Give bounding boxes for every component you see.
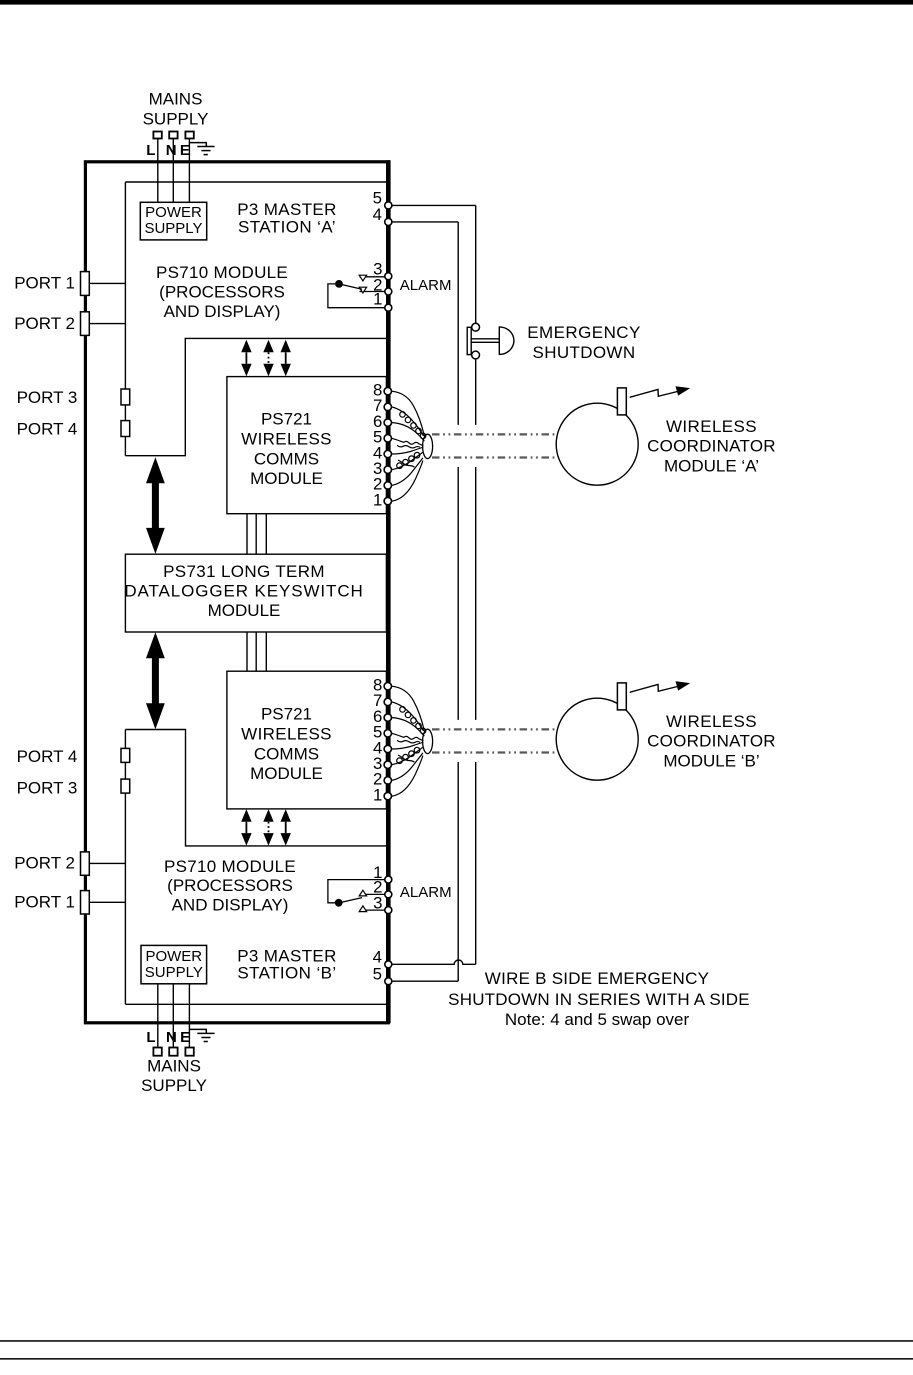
svg-text:MAINS: MAINS xyxy=(147,1057,201,1076)
svg-text:WIRELESS: WIRELESS xyxy=(666,417,757,436)
svg-text:PS721: PS721 xyxy=(261,410,312,429)
svg-text:PORT 4: PORT 4 xyxy=(17,747,78,766)
svg-text:MODULE: MODULE xyxy=(250,764,323,783)
svg-text:MODULE ‘B’: MODULE ‘B’ xyxy=(663,751,759,770)
bus arrow PS710A-PS731 xyxy=(146,457,165,554)
power supply B box xyxy=(141,945,207,983)
svg-text:DATALOGGER KEYSWITCH: DATALOGGER KEYSWITCH xyxy=(124,581,363,600)
port 1 connector B xyxy=(81,891,90,914)
svg-text:COMMS: COMMS xyxy=(254,745,319,764)
emergency shutdown terminal lower xyxy=(472,351,480,359)
svg-text:SUPPLY: SUPPLY xyxy=(141,1076,207,1095)
rf arrow A xyxy=(630,386,691,397)
bus lines PS721A-PS731 xyxy=(247,514,266,554)
labels pins 8-1 (PS721 B) xyxy=(373,676,382,805)
svg-text:E: E xyxy=(180,1029,190,1046)
svg-text:PS710 MODULE: PS710 MODULE xyxy=(164,857,296,876)
mains terminal square bottom 1 xyxy=(153,1048,161,1056)
svg-text:P3 MASTER: P3 MASTER xyxy=(237,947,337,966)
svg-text:PS710 MODULE: PS710 MODULE xyxy=(156,263,288,282)
port 3 connector A xyxy=(121,389,130,405)
module PS721 A box xyxy=(227,377,387,514)
power supply A box xyxy=(140,202,206,240)
rf arrow B xyxy=(630,681,691,692)
svg-text:MODULE ‘A’: MODULE ‘A’ xyxy=(664,456,759,475)
svg-text:(PROCESSORS: (PROCESSORS xyxy=(167,876,293,895)
svg-text:PORT 2: PORT 2 xyxy=(14,854,75,873)
emergency shutdown terminal upper xyxy=(472,323,480,331)
wire alarm A pin2 xyxy=(360,291,385,293)
wire mains E (top) xyxy=(188,139,190,203)
svg-text:WIRELESS: WIRELESS xyxy=(666,712,757,731)
alarm A contact triangle pin3 xyxy=(359,275,366,281)
svg-text:PS721: PS721 xyxy=(261,705,312,724)
svg-text:COORDINATOR: COORDINATOR xyxy=(647,437,776,456)
wire port1 A xyxy=(89,282,125,284)
wire alarm A pin3 xyxy=(360,276,385,278)
svg-text:MODULE: MODULE xyxy=(208,601,281,620)
alarm B common dot xyxy=(335,899,343,907)
wire pin4A to right bus xyxy=(392,221,458,223)
footer rule upper xyxy=(0,1340,913,1342)
svg-text:COMMS: COMMS xyxy=(254,450,319,469)
svg-text:(PROCESSORS: (PROCESSORS xyxy=(159,283,285,302)
pin terminals 8-1 (PS721 A) xyxy=(384,388,391,505)
alarm A common dot xyxy=(335,280,343,288)
cabinet enclosure outline xyxy=(85,162,388,1023)
module PS710 B outline xyxy=(125,730,386,1005)
emergency shutdown contact bar xyxy=(467,327,471,354)
mains terminal square top 3 xyxy=(185,132,193,139)
svg-text:SUPPLY: SUPPLY xyxy=(143,110,209,129)
alarm A wiper xyxy=(341,284,362,289)
earth symbol (top) xyxy=(189,143,214,155)
module PS710 A outline xyxy=(125,182,386,456)
alarm B contact triangle pin3 xyxy=(359,906,366,912)
wire alarm B pin3 xyxy=(360,909,385,911)
module PS721 B box xyxy=(227,671,387,809)
wire port1 B xyxy=(89,901,125,903)
svg-text:AND DISPLAY): AND DISPLAY) xyxy=(172,896,289,915)
port 2 connector B xyxy=(81,852,90,875)
wireless link lines B xyxy=(432,729,556,752)
wireless coordinator B circle xyxy=(556,698,638,780)
pin 4 terminal (B bottom) xyxy=(385,961,392,968)
wireless link lines A xyxy=(432,434,556,457)
pin 2 terminal (alarm A) xyxy=(385,288,392,295)
pin 5 terminal (B bottom) xyxy=(385,978,392,985)
wire port2 A xyxy=(89,323,125,325)
pin 1 terminal (alarm B) xyxy=(385,876,392,883)
svg-text:WIRE B SIDE EMERGENCY: WIRE B SIDE EMERGENCY xyxy=(485,969,709,988)
wire mains E (bottom) xyxy=(188,984,190,1048)
svg-text:PORT 3: PORT 3 xyxy=(17,779,78,798)
svg-text:PORT 4: PORT 4 xyxy=(17,420,78,439)
svg-text:MAINS: MAINS xyxy=(149,89,203,108)
svg-text:E: E xyxy=(180,142,190,159)
pin 1 terminal (alarm A) xyxy=(385,304,392,311)
wire alarm A common xyxy=(328,284,385,308)
svg-text:PORT 1: PORT 1 xyxy=(14,274,75,293)
svg-text:STATION ‘A’: STATION ‘A’ xyxy=(238,217,336,236)
alarm A contact triangle pin2 xyxy=(359,287,366,293)
wire alarm B pin2 xyxy=(360,893,385,895)
wire port2 B xyxy=(89,862,125,864)
data arrows PS721B-PS710B xyxy=(241,809,251,845)
wire pin5B xyxy=(392,980,458,982)
mains terminal square bottom 3 xyxy=(185,1048,193,1056)
svg-text:1: 1 xyxy=(373,785,382,804)
svg-text:SHUTDOWN: SHUTDOWN xyxy=(533,343,636,362)
mains terminal square bottom 2 xyxy=(169,1048,177,1056)
port 1 connector A xyxy=(81,272,90,296)
svg-text:1: 1 xyxy=(373,490,382,509)
labels pins 8-1 (PS721 A) xyxy=(373,381,382,510)
svg-text:SHUTDOWN IN SERIES WITH A SIDE: SHUTDOWN IN SERIES WITH A SIDE xyxy=(448,990,750,1009)
svg-text:Note: 4 and 5 swap over: Note: 4 and 5 swap over xyxy=(505,1010,690,1029)
wire mains N (bottom) xyxy=(172,984,174,1048)
pin 5 terminal (A top) xyxy=(385,202,392,209)
antenna B xyxy=(617,683,626,710)
svg-text:5: 5 xyxy=(373,964,382,983)
pin 3 terminal (alarm A) xyxy=(385,273,392,280)
svg-text:COORDINATOR: COORDINATOR xyxy=(647,732,776,751)
pin terminals 8-1 (PS721 B) xyxy=(384,683,391,800)
twisted-pair cloud PS721 B xyxy=(392,686,433,796)
cabinet right-hand backplane rail xyxy=(386,160,391,1023)
emergency shutdown actuator shaft xyxy=(471,339,499,343)
svg-text:EMERGENCY: EMERGENCY xyxy=(527,323,641,342)
svg-text:WIRELESS: WIRELESS xyxy=(241,430,332,449)
svg-text:4: 4 xyxy=(373,205,382,224)
port 4 connector A xyxy=(121,421,130,437)
svg-text:ALARM: ALARM xyxy=(400,884,452,901)
emergency shutdown mushroom head xyxy=(499,327,514,355)
alarm B contact triangle pin2 xyxy=(359,890,366,896)
mains terminal square top 2 xyxy=(169,132,177,139)
wire mains L (top) xyxy=(157,139,159,203)
port 2 connector A xyxy=(81,312,90,336)
twisted-pair cloud PS721 A xyxy=(392,391,433,501)
svg-text:P3 MASTER: P3 MASTER xyxy=(237,200,337,219)
svg-text:MODULE: MODULE xyxy=(250,469,323,488)
svg-text:ALARM: ALARM xyxy=(400,277,452,294)
wireless coordinator A circle xyxy=(556,403,638,485)
svg-text:PORT 3: PORT 3 xyxy=(17,388,78,407)
svg-text:L: L xyxy=(146,142,155,159)
data arrows PS710A-PS721A xyxy=(241,340,251,376)
svg-text:AND DISPLAY): AND DISPLAY) xyxy=(164,302,281,321)
svg-text:PS731 LONG TERM: PS731 LONG TERM xyxy=(163,562,325,581)
svg-text:1: 1 xyxy=(373,289,382,308)
svg-text:PORT 2: PORT 2 xyxy=(14,314,75,333)
module PS731 box xyxy=(125,554,386,632)
mains terminal square top 1 xyxy=(153,132,161,139)
bus lines PS731-PS721B xyxy=(247,632,266,671)
wire pin4B with hop xyxy=(392,960,476,964)
svg-text:SUPPLY: SUPPLY xyxy=(145,964,203,981)
bus arrow PS731-PS710B xyxy=(146,632,165,729)
port 3 connector B xyxy=(121,779,130,793)
wire net pin4A-pin5B vertical (x=458.2) xyxy=(457,222,459,981)
svg-text:L: L xyxy=(146,1029,155,1046)
svg-text:SUPPLY: SUPPLY xyxy=(144,220,202,237)
port 4 connector B xyxy=(121,748,130,762)
alarm B wiper xyxy=(341,898,362,903)
pin 2 terminal (alarm B) xyxy=(385,891,392,898)
wire net pin5A-pin4B vertical (x=475.7) xyxy=(475,205,477,964)
svg-text:N: N xyxy=(166,1029,177,1046)
earth symbol (bottom) xyxy=(189,1029,214,1041)
wire alarm B common xyxy=(328,880,385,903)
footer rule lower xyxy=(0,1358,913,1360)
svg-text:WIRELESS: WIRELESS xyxy=(241,725,332,744)
page header bar xyxy=(0,0,913,5)
pin 4 terminal (A top) xyxy=(385,218,392,225)
svg-text:POWER: POWER xyxy=(145,948,202,965)
wire mains N (top) xyxy=(172,139,174,203)
svg-text:STATION ‘B’: STATION ‘B’ xyxy=(237,964,336,983)
svg-text:POWER: POWER xyxy=(145,204,202,221)
pin 3 terminal (alarm B) xyxy=(385,907,392,914)
antenna A xyxy=(617,388,626,415)
svg-text:N: N xyxy=(166,142,177,159)
wire pin5A to right bus xyxy=(392,204,476,206)
wire mains L (bottom) xyxy=(157,984,159,1048)
svg-text:PORT 1: PORT 1 xyxy=(14,892,75,911)
